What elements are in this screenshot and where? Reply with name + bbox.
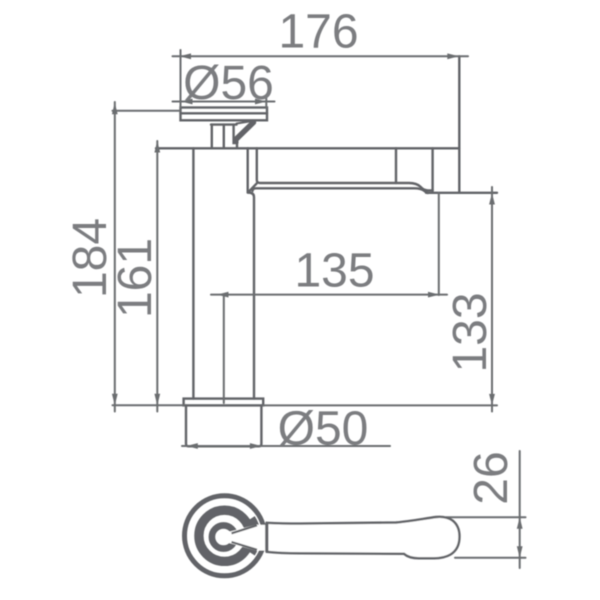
column right edge with fillet: [248, 193, 254, 399]
dim O56 line: [173, 101, 275, 103]
body right edge: [458, 56, 460, 193]
arrow 184 bottom: [112, 394, 118, 406]
dim 176 left extension: [180, 50, 182, 108]
dim 184 top extension: [113, 110, 181, 112]
base body: [186, 405, 261, 446]
dim 26 line: [519, 451, 521, 568]
stem collar: [211, 123, 237, 125]
knob hub ring: [212, 525, 235, 548]
arrow 135 left: [217, 292, 229, 298]
cap (handle disc, side view): [181, 108, 268, 121]
arrow 176 left: [180, 53, 192, 59]
arrow O50 left: [186, 443, 198, 449]
outlet internal vertical: [431, 148, 433, 191]
arrow 26 bottom: [517, 546, 523, 558]
arrow 133 bottom: [489, 394, 495, 406]
arrow O50 right: [250, 443, 262, 449]
svg-text:26: 26: [465, 451, 518, 504]
stem left line: [211, 125, 213, 149]
svg-text:Ø56: Ø56: [183, 57, 274, 110]
dim 176 line: [173, 55, 469, 57]
arrow 176 right: [447, 53, 459, 59]
arrow 161 bottom: [154, 394, 160, 406]
knob outer ring: [185, 496, 265, 576]
column inner right line: [246, 148, 248, 192]
arrowheads: [112, 53, 523, 557]
slot top wall: [232, 525, 258, 533]
arrow 135 right: [428, 292, 440, 298]
svg-text:135: 135: [294, 245, 374, 298]
dim 135 right extension: [438, 193, 440, 295]
horn top: [252, 518, 257, 531]
handle arm: [267, 517, 460, 558]
dim 135 line: [211, 294, 447, 296]
arrow 161 top: [154, 141, 160, 153]
svg-text:176: 176: [278, 6, 358, 59]
svg-text:133: 133: [444, 292, 497, 372]
arrow 133 top: [489, 193, 495, 205]
knob middle ring: [199, 510, 250, 561]
dim O50 line: [182, 445, 390, 447]
column centerline: [223, 295, 225, 403]
horn bottom: [252, 541, 257, 554]
svg-text:161: 161: [109, 238, 162, 318]
dim 184 line: [114, 102, 116, 412]
body left edge: [192, 148, 194, 398]
spout bottom line: [426, 192, 497, 194]
dim 26 bottom extension: [455, 557, 526, 559]
slot bottom wall: [232, 542, 258, 550]
arrow 26 top: [517, 517, 523, 529]
base collar: [184, 399, 264, 406]
chamfer to spout underside: [248, 183, 257, 192]
shared bottom extension: [113, 404, 184, 406]
body top line: [156, 147, 459, 149]
arrow 184 top: [112, 103, 118, 115]
dim O56 right extension: [265, 96, 267, 108]
stem mid line: [223, 125, 225, 149]
dim 26 top extension: [446, 516, 526, 518]
arrow O56 left: [181, 99, 193, 105]
spout underside inner edge: [257, 148, 433, 190]
svg-text:Ø50: Ø50: [278, 402, 369, 455]
arm left cap: [265, 523, 268, 552]
notch: [258, 525, 266, 551]
slot: [229, 524, 258, 551]
dim 161 line: [156, 141, 158, 412]
stem right line: [234, 125, 237, 149]
spout underside outer edge: [253, 188, 429, 193]
lever arm: [234, 121, 254, 144]
dim 133 line: [491, 187, 493, 412]
spout internal vertical: [395, 148, 397, 183]
dim 133 bottom extension: [263, 404, 497, 406]
arrow O56 right: [255, 99, 267, 105]
